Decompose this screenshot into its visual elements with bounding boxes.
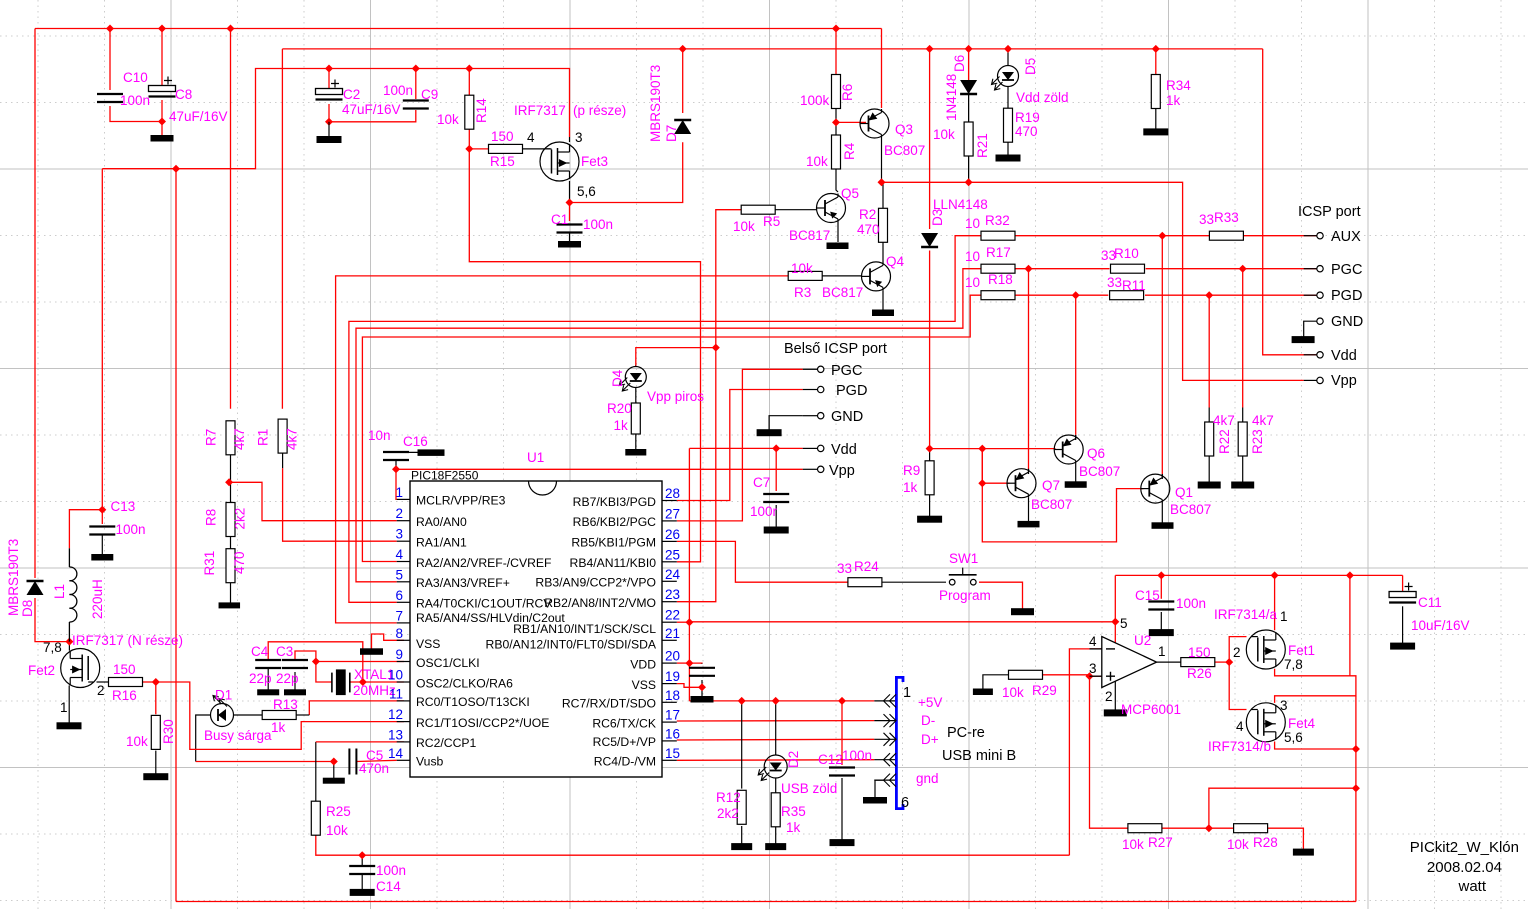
transistor Q6 BC807 [1054,435,1083,464]
svg-text:R7: R7 [204,429,219,446]
node opamp pin5 [1111,618,1119,626]
node R26 out [1225,658,1233,666]
svg-text:Q6: Q6 [1087,446,1105,461]
mosfet Fet2 IRF7317n [61,649,100,688]
svg-text:10k: 10k [437,112,459,127]
wire 5V runner to Fet3 drain [102,69,569,169]
node Q7 base [978,479,986,487]
svg-text:R28: R28 [1253,835,1278,850]
svg-text:2: 2 [1105,689,1113,704]
node D7 rail [679,45,687,53]
svg-text:+5V: +5V [918,695,942,710]
node R12 5V [738,697,746,705]
svg-text:Q1: Q1 [1175,485,1193,500]
wire Q3 collector from rail [881,29,883,109]
resistor R29 [1009,670,1043,679]
svg-text:100n: 100n [842,748,872,763]
node PGD R22 [1205,291,1213,299]
wire R1 bottom lead [282,453,284,468]
transistor Q7 BC807 [1007,469,1036,498]
svg-text:14: 14 [388,746,404,761]
svg-text:D8: D8 [20,600,35,617]
wire R6 bottom to Q3 base [835,108,837,122]
svg-text:U2: U2 [1134,633,1151,648]
svg-text:VSS: VSS [416,637,440,651]
svg-text:R9: R9 [903,463,920,478]
ground L1 area none [0,0,1,1]
svg-text:C8: C8 [175,87,192,102]
node D5 rail [1004,45,1012,53]
svg-text:Q4: Q4 [886,254,905,269]
ground C1 [559,242,581,248]
resistor R26 [1181,658,1215,667]
wire C13 gnd stem [101,535,103,555]
svg-text:3: 3 [575,130,583,145]
svg-text:MCLR/VPP/RE3: MCLR/VPP/RE3 [416,494,506,508]
resistor R31 [226,549,235,583]
wire R7 top lead [230,29,232,409]
svg-text:C15: C15 [1135,588,1160,603]
wire belso Vdd stub [803,447,818,449]
svg-text:4: 4 [395,547,403,562]
node C9 top [412,65,420,73]
wire SW1 right to gnd [979,582,1023,609]
wire C3 top to OSC1 node [295,651,316,662]
ground Q7 [1018,521,1039,527]
wire R7 R8 string [230,454,232,503]
svg-text:R25: R25 [326,804,351,819]
wire Vdd net from pin22 [688,448,690,622]
diode D6 1N4148 [960,80,977,94]
wire D6 to R21 [968,95,970,122]
svg-text:IRF7314/b: IRF7314/b [1208,739,1271,754]
svg-text:C11: C11 [1418,595,1442,610]
wire belso Vdd junction down C7 [775,448,777,491]
svg-text:U1: U1 [527,450,544,465]
wire C4 bottom gnd lead [267,668,269,690]
wire Q7 emitter lead [1028,469,1030,474]
svg-text:150: 150 [1188,645,1211,660]
node PGC R23 [1239,265,1247,273]
svg-text:RB3/AN9/CCP2*/VPO: RB3/AN9/CCP2*/VPO [535,576,656,590]
svg-text:VSS: VSS [632,678,656,692]
svg-text:150: 150 [491,129,514,144]
svg-text:C1: C1 [551,212,568,227]
wire R26 junction to Fet4 gate [1229,662,1246,709]
wire R14 bottom to R15 junction [468,129,470,149]
capacitor C16 [383,452,409,460]
svg-text:Vpp piros: Vpp piros [647,389,704,404]
wire right vertical to bottom rail [1355,696,1357,902]
LED D2 USB zold [758,754,787,781]
svg-text:Belső ICSP port: Belső ICSP port [784,341,887,357]
node R7 R8 [225,478,233,486]
svg-text:4: 4 [527,130,535,145]
wire MCLR node to pin1 [395,469,398,499]
svg-text:4k7: 4k7 [1252,413,1274,428]
svg-text:4k7: 4k7 [1213,413,1235,428]
node x176 top [172,165,180,173]
wire D5 top lead [1007,49,1009,66]
node C1 [566,199,574,207]
resistor R19 [1004,108,1013,142]
svg-text:R4: R4 [842,142,857,160]
resistor R23 [1238,422,1247,456]
svg-text:470: 470 [232,551,247,574]
wire pin16 to USB D+ [677,738,875,741]
wire belso GND stub [803,415,818,417]
node C5 gnd [330,758,338,766]
wire C6 bottom gnd [701,680,703,697]
svg-text:RB1/AN10/INT1/SCK/SCL: RB1/AN10/INT1/SCK/SCL [513,622,656,636]
wire PGD row R11 to port [1145,294,1317,296]
wire R23 bottom lead [1242,456,1244,482]
svg-text:5: 5 [395,567,403,582]
capacitor C3 [282,660,308,668]
node Q7 drop rail [978,445,986,453]
svg-text:R14: R14 [474,98,489,123]
svg-text:L1: L1 [52,584,67,599]
wire C8 top lead [161,29,163,86]
inductor L1 220uH [69,548,76,641]
svg-text:Fet1: Fet1 [1288,643,1315,658]
svg-text:1k: 1k [786,820,801,835]
wire R19 bottom lead [1007,141,1009,155]
svg-text:BC807: BC807 [1031,497,1072,512]
port belso GND [818,413,824,419]
svg-text:SW1: SW1 [949,551,978,566]
svg-text:6: 6 [901,795,909,811]
svg-text:10n: 10n [368,428,391,443]
svg-text:RC5/D+/VP: RC5/D+/VP [593,735,656,749]
svg-text:4k7: 4k7 [232,428,247,450]
svg-text:D+: D+ [921,732,939,747]
ground C8 [151,136,173,142]
svg-text:3: 3 [1280,698,1288,713]
wire AUX stub [1304,235,1317,237]
node opamp plus [1086,672,1094,680]
node R27 R28 [1205,824,1213,832]
node PGC R17 [1025,265,1033,273]
svg-text:23: 23 [665,587,680,602]
svg-text:2008.02.04: 2008.02.04 [1427,859,1502,876]
wire C3 bottom gnd lead [294,672,296,690]
svg-text:RA4/T0CKI/C1OUT/RCV: RA4/T0CKI/C1OUT/RCV [416,597,552,611]
svg-text:100n: 100n [383,83,413,98]
wire Q4 emitter to gnd [882,291,884,310]
wire R25 bottom to C14 rail [316,834,1070,855]
resistor R4 [832,135,841,169]
resistor R10 [1111,264,1145,273]
node R9 rail [926,445,934,453]
svg-text:R20: R20 [607,401,632,416]
node C12 5V [838,697,846,705]
wire R26 right junction [1214,661,1229,663]
wire D3 top from rail [929,49,931,229]
port Vpp [1317,377,1323,383]
svg-text:C4: C4 [251,644,269,659]
switch SW1 Program [949,568,977,585]
svg-text:Fet3: Fet3 [581,154,608,169]
node Fet2 source [65,638,73,646]
wire R5 right to Q5 base [775,209,817,211]
svg-text:R17: R17 [986,245,1011,260]
wire PGD stub [1304,294,1317,296]
node R25 C14 [358,851,366,859]
resistor R33 [1209,231,1243,240]
capacitor C4 [255,660,281,668]
node R34 rail [1152,45,1160,53]
wire C1 node to D7 [570,142,683,202]
wire R12 hang [741,701,743,789]
ground R34 [1144,129,1168,135]
node C15 rail [1157,571,1165,579]
svg-text:100k: 100k [800,93,830,108]
svg-text:17: 17 [665,708,680,723]
svg-text:10k: 10k [326,823,348,838]
capacitor C14 [349,866,375,874]
wire y=68.5 branch C2 [328,69,330,89]
wire C1 top lead [569,203,571,222]
wire pin22 RB1 junction [677,621,690,623]
wire C6 lead [701,662,703,665]
wire R28 right to gnd [1267,828,1303,849]
node rail drop [1346,571,1354,579]
svg-text:Q7: Q7 [1042,478,1060,493]
svg-text:(p része): (p része) [573,103,626,118]
wire PGC stub [1304,268,1317,270]
node D2 5V [772,697,780,705]
wire pin28 RB7 to belso PGD [677,390,803,501]
wire pin8 VSS jog to gnd [372,634,404,649]
wire RB1 long wire to opamp [689,621,1115,623]
svg-text:IRF7317: IRF7317 [514,103,566,118]
node D3 rail [926,45,934,53]
wire R29 right to plus input [1043,674,1090,676]
node OSC1 [312,658,320,666]
port belso PGD [818,386,824,392]
ground R28 [1293,849,1313,855]
svg-text:Q3: Q3 [895,122,913,137]
node pin22 RB1 [685,618,693,626]
wire R18 right to PGD row [1016,294,1109,296]
svg-text:R33: R33 [1214,210,1239,225]
svg-text:33: 33 [1199,212,1214,227]
svg-text:4k7: 4k7 [285,428,300,450]
svg-text:R22: R22 [1217,429,1232,454]
wire R31 bottom gnd lead [230,582,232,603]
resistor R24 [848,578,882,587]
ground R29 [973,689,992,695]
node pin20 VDD [685,659,693,667]
node Q3 emitter rail [878,178,886,186]
wire pin15 to USB row4 [677,759,875,762]
svg-text:PICkit2_W_Klón: PICkit2_W_Klón [1410,839,1519,856]
node R16 R30 [152,678,160,686]
svg-text:220uH: 220uH [90,579,105,619]
svg-text:1: 1 [903,685,911,701]
wire x=176 long vertical to bottom rail [175,169,177,902]
capacitor C9 [403,101,429,109]
ground Q4 [873,310,894,316]
wire R27-R28 mid [1161,827,1234,829]
svg-text:OSC1/CLKI: OSC1/CLKI [416,656,480,670]
resistor R7 [226,421,235,455]
svg-text:R24: R24 [854,559,879,574]
resistor R28 [1234,824,1268,833]
node feedback [1352,784,1360,792]
wire R4 bottom to Q5 collector [836,168,838,192]
wire R29 left gnd [983,675,1009,689]
svg-text:4: 4 [1236,719,1244,734]
wire Fet2 source node [68,642,70,651]
wire Q1 collector gnd [1161,503,1163,523]
capacitor C5 [349,749,356,775]
wire R12 gnd lead [741,826,743,844]
svg-text:10k: 10k [126,734,148,749]
svg-text:R19: R19 [1015,110,1040,125]
svg-text:24: 24 [665,567,681,582]
ground R30 [144,774,168,780]
wire Fet1 drain to rail [1274,575,1276,630]
wire R13 right lead [296,714,310,716]
wire Vpp belso line [396,468,803,470]
wire pin11 RC0 from R13 [309,701,404,715]
wire R14 top lead [468,69,470,96]
svg-text:D4: D4 [610,369,625,387]
wire D3 bottom to R9 [929,251,931,449]
LED D4 Vpp piros [619,366,646,392]
capacitor C1 [557,225,583,233]
wire C5 net to Vusb [196,761,334,763]
wire pin27 RB6 to belso PGC [677,369,803,521]
ground C3 [285,690,306,695]
node PGD R18 [1072,291,1080,299]
svg-text:watt: watt [1457,878,1486,895]
svg-text:100r: 100r [750,504,778,519]
ground opamp pin2 [1104,710,1126,716]
wire C14 bottom gnd [361,874,363,889]
svg-text:5,6: 5,6 [1284,730,1303,745]
ground C2 [317,137,341,143]
svg-text:12: 12 [388,707,403,722]
node AUX R33 [1158,232,1166,240]
ground C4 [258,690,279,695]
svg-text:10: 10 [965,249,980,264]
ground C12 [830,840,854,846]
port belso Vpp [818,466,824,472]
svg-text:3: 3 [395,527,403,542]
wire C2 bottom to C9 bottom [329,104,416,122]
ground Q6 [1065,482,1086,488]
wire belso GND elbow [769,416,803,430]
wire C11 bottom gnd [1402,606,1404,643]
svg-text:21: 21 [665,626,680,641]
wire C2 gnd stem [328,122,330,137]
wire D1 left lead down [196,715,211,762]
wire Q7 branch down [982,449,1143,542]
wire x=102 vertical 5V to C13 [101,169,103,510]
crystal XTAL1 20MHz [332,670,350,695]
ground C13 [92,555,113,561]
resistor R15 [489,144,523,153]
IC U1 PIC18F2550 body [397,481,677,777]
resistor R35 [771,793,780,827]
svg-text:R8: R8 [204,509,219,526]
wire Fet3 source to C1 node [569,181,571,203]
wire D8 to Fet2 source node [35,598,69,642]
svg-text:100n: 100n [583,217,613,232]
svg-text:47uF/16V: 47uF/16V [342,102,401,117]
svg-text:R31: R31 [202,551,217,576]
svg-text:D2: D2 [786,751,801,768]
wire C5 gnd stem [333,762,335,779]
wire R34 bottom lead [1155,108,1157,128]
ground R20 [626,450,646,456]
ground C11 [1391,643,1415,649]
svg-text:RC4/D-/VM: RC4/D-/VM [594,755,656,769]
svg-text:D1: D1 [215,688,232,703]
wire Fet2 drain to gnd [68,686,70,723]
svg-text:OSC2/CLKO/RA6: OSC2/CLKO/RA6 [416,676,513,690]
svg-text:Program: Program [939,588,991,603]
wire AUX junction to R33 [1162,235,1209,237]
wire opamp pin2 gnd [1114,682,1116,710]
wire PGD junction down to R22 [1208,295,1210,407]
wire belso PGD stub [803,389,818,391]
LED D1 Busy sarga [211,696,234,727]
wire C9 top lead [415,69,417,100]
svg-text:100n: 100n [1176,596,1206,611]
wire ICSP GND elbow [1304,321,1317,336]
wire R30 top lead [155,682,157,714]
transistor Q5 BC817 [817,194,846,223]
wire C4 top to OSC2 net [268,642,363,682]
diode D8 MBRS190T3 [27,581,44,595]
node Fet4 source [1352,745,1360,753]
wire Vpp port line from Q1 emitter net [1161,236,1163,474]
svg-text:R23: R23 [1250,429,1265,454]
svg-text:100n: 100n [376,863,406,878]
svg-text:C14: C14 [376,879,401,894]
resistor R32 [981,231,1015,240]
svg-text:19: 19 [665,669,680,684]
resistor R14 [465,95,474,129]
transistor Q4 BC817 [862,262,891,291]
wire R9 body leads [929,449,931,462]
svg-text:10: 10 [965,216,980,231]
svg-text:R35: R35 [781,804,806,819]
node R14 top [465,65,473,73]
svg-text:27: 27 [665,506,680,521]
capacitor C15 [1148,602,1174,610]
wire Vdd port drop [1263,49,1317,355]
svg-text:PGC: PGC [1331,262,1362,278]
node belso Vdd [772,444,780,452]
svg-text:C7: C7 [753,475,770,490]
svg-text:6: 6 [395,588,403,603]
wire C10 bottom to C8 [110,106,162,122]
connector J1 USB mini B [874,676,904,810]
wire R16 right to junction [142,681,156,683]
ground R31 [219,603,240,608]
svg-text:RA2/AN2/VREF-/CVREF: RA2/AN2/VREF-/CVREF [416,556,551,570]
wire C7 bottom gnd lead [775,505,777,527]
resistor R17 [981,264,1015,273]
svg-text:20: 20 [665,649,680,664]
wire opamp pin5 vertical [1114,575,1116,644]
svg-text:R15: R15 [490,154,515,169]
